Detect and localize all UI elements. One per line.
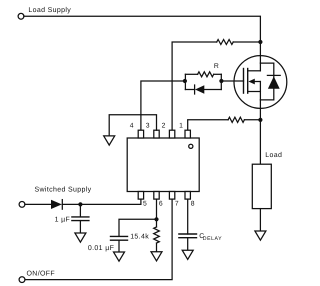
pin label 8 bbox=[191, 201, 195, 208]
ground (15.4k) bbox=[151, 252, 162, 261]
wire diode to pin5 bbox=[62, 199, 141, 204]
pin 6 stub bbox=[154, 192, 159, 200]
wire resistor to drain node bbox=[244, 119, 260, 121]
ground (C1) bbox=[75, 233, 86, 242]
pin 2 stub bbox=[169, 130, 174, 138]
svg-text:15.4k: 15.4k bbox=[130, 232, 149, 240]
diode D2 cathode bar bbox=[194, 85, 196, 94]
svg-text:DELAY: DELAY bbox=[203, 236, 222, 242]
pin label 5 bbox=[143, 201, 147, 208]
capacitor C1 1uF lead bbox=[79, 204, 81, 217]
Q1 body-diode triangle bbox=[268, 76, 280, 88]
wire node to 0.01uF cap bbox=[119, 219, 157, 236]
ground (C2) bbox=[114, 252, 125, 261]
diode D1 cathode bar bbox=[61, 200, 63, 210]
svg-text:1 µF: 1 µF bbox=[55, 216, 71, 223]
wire pin2 to top resistor bbox=[172, 42, 217, 130]
svg-text:Load: Load bbox=[265, 151, 282, 159]
wire pin8 to CDELAY bbox=[187, 199, 189, 234]
node junction 1uF bbox=[78, 202, 82, 206]
ground (load) bbox=[255, 231, 266, 240]
Q1 body arrow bbox=[248, 79, 254, 85]
node A: parallel combo left bbox=[183, 79, 187, 83]
wire pin3 to ground bbox=[109, 115, 156, 136]
svg-text:Switched Supply: Switched Supply bbox=[35, 186, 92, 194]
Q1 channel bar bbox=[247, 69, 249, 94]
resistor R lead right bbox=[214, 73, 222, 75]
svg-text:4: 4 bbox=[130, 122, 134, 129]
capacitor C1 lower lead bbox=[79, 221, 81, 233]
resistor R bbox=[198, 72, 214, 77]
pin label 7 bbox=[175, 201, 179, 208]
wire pin4 up and right to parallel RC node bbox=[141, 81, 185, 130]
svg-text:6: 6 bbox=[159, 201, 163, 208]
capacitor C1 plates bbox=[72, 217, 89, 221]
terminal: Switched Supply input bbox=[19, 202, 25, 208]
Q1 top contact bbox=[248, 70, 261, 72]
Q1 drain vertical to bottom node bbox=[259, 82, 261, 120]
pin 8 stub bbox=[185, 192, 190, 200]
capacitor CDELAY lower lead bbox=[187, 238, 189, 251]
pin label 6 bbox=[159, 201, 163, 208]
svg-text:2: 2 bbox=[162, 122, 166, 129]
pin 1 stub bbox=[185, 130, 190, 138]
label Load bbox=[265, 151, 282, 159]
label 1 uF bbox=[55, 216, 71, 223]
wire gate lead bbox=[221, 80, 243, 82]
label ON/OFF bbox=[27, 269, 56, 277]
Q1 body-diode branch bbox=[260, 63, 273, 100]
wire switched supply to diode bbox=[25, 203, 51, 205]
ground (pin3) bbox=[104, 136, 115, 145]
label Switched Supply bbox=[35, 186, 92, 194]
wire pin7 to ON/OFF bbox=[25, 199, 172, 280]
wire drain to load bbox=[259, 120, 261, 164]
wire pin1 to bottom resistor bbox=[188, 120, 228, 130]
label 15.4k bbox=[130, 232, 149, 240]
node B: parallel combo right bbox=[219, 79, 223, 83]
wire pin6 down to node bbox=[156, 199, 158, 219]
Q1 gate bar bbox=[243, 69, 245, 94]
label 0.01 uF bbox=[88, 245, 114, 252]
IC U1 body bbox=[127, 138, 199, 192]
svg-text:5: 5 bbox=[143, 201, 147, 208]
svg-text:R: R bbox=[214, 63, 219, 70]
terminal: ON/OFF input bbox=[19, 277, 25, 283]
node junction drain bbox=[258, 118, 262, 122]
pin 5 stub bbox=[138, 192, 143, 200]
Q1 top (source) lead bbox=[259, 42, 261, 71]
pin label 3 bbox=[146, 122, 150, 129]
resistor bottom (pin1 sense) bbox=[228, 117, 244, 122]
ground (CDELAY) bbox=[182, 250, 193, 259]
resistor 15.4k bbox=[154, 227, 160, 243]
parallel combo right branch vertical bbox=[220, 74, 222, 89]
capacitor C2 0.01uF plates bbox=[111, 236, 128, 240]
load resistor box bbox=[252, 164, 271, 208]
diode D2 leads (parallel with R) bbox=[185, 89, 221, 91]
pin 4 stub bbox=[138, 130, 143, 138]
wire load-supply top rail bbox=[24, 16, 261, 42]
svg-text:3: 3 bbox=[146, 122, 150, 129]
wire resistor to node bbox=[233, 41, 260, 43]
capacitor C2 lower lead bbox=[118, 240, 120, 252]
wire load to ground bbox=[259, 209, 261, 231]
diode D2 triangle pointing left bbox=[195, 85, 204, 94]
node junction pin6 bbox=[154, 217, 158, 221]
svg-text:1: 1 bbox=[179, 122, 183, 129]
terminal: Load Supply input bbox=[18, 13, 24, 19]
Q1 body-diode cathode bar bbox=[267, 74, 280, 76]
pin 3 stub bbox=[154, 130, 159, 138]
resistor 15.4k lead bottom bbox=[156, 243, 158, 252]
svg-text:7: 7 bbox=[175, 201, 179, 208]
svg-text:Load Supply: Load Supply bbox=[28, 6, 71, 14]
Q1 bottom contact bbox=[248, 91, 261, 93]
label Load Supply bbox=[28, 6, 71, 14]
node junction top (gate resistor / Q1 source) bbox=[258, 40, 262, 44]
resistor R lead left bbox=[185, 73, 197, 75]
diode D1 triangle bbox=[51, 200, 62, 209]
transistor Q1 body circle bbox=[234, 56, 287, 109]
capacitor CDELAY plates bbox=[179, 234, 197, 238]
pin label 4 bbox=[130, 122, 134, 129]
Q1 body contact line bbox=[254, 81, 261, 83]
svg-text:0.01 µF: 0.01 µF bbox=[88, 245, 114, 252]
svg-text:ON/OFF: ON/OFF bbox=[27, 269, 56, 277]
pin 7 stub bbox=[169, 192, 174, 200]
IC pin-1 indicator bbox=[189, 144, 193, 148]
pin label 2 bbox=[162, 122, 166, 129]
pin label 1 bbox=[179, 122, 183, 129]
parallel combo left branch verticals bbox=[184, 74, 186, 89]
label C DELAY bbox=[199, 233, 204, 240]
resistor 15.4k lead top bbox=[156, 219, 158, 227]
resistor top (pin2 to supply) bbox=[217, 40, 234, 45]
label R bbox=[214, 63, 219, 70]
svg-text:8: 8 bbox=[191, 201, 195, 208]
